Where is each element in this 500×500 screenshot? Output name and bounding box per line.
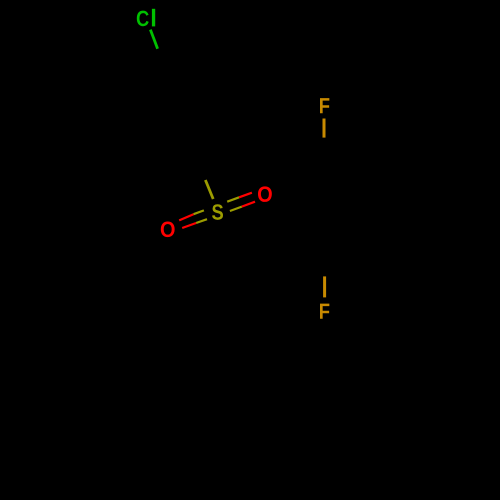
S=O double bond left, lower line, oxygen half <box>182 223 196 228</box>
atom S (sulfur label) <box>212 204 223 220</box>
wire bond F-C bottom (fluorine half-bond up) <box>323 276 326 297</box>
atom O left (oxygen label) <box>161 222 175 238</box>
S=O double bond right, lower line, oxygen half <box>242 202 255 207</box>
atom F bottom (fluorine label) <box>320 304 329 319</box>
wire bond S-C aryl (sulfur half-bond up to ring) <box>205 180 213 199</box>
atom O right (oxygen label) <box>258 186 272 202</box>
S=O double bond right, upper line, sulfur half <box>227 197 239 201</box>
S=O double bond right, lower line, sulfur half <box>230 207 242 211</box>
atom Cl (chlorine label) <box>137 11 149 27</box>
S=O double bond right, upper line, oxygen half <box>239 193 252 198</box>
wire bond Cl-C (chlorine half-bond) <box>150 30 157 49</box>
S=O double bond left, upper line, oxygen half <box>179 214 193 220</box>
S=O double bond left, lower line, sulfur half <box>196 219 207 223</box>
wire bond F-C top (fluorine half-bond down) <box>323 119 326 138</box>
atom F top (fluorine label) <box>320 98 329 113</box>
atom Cl (chlorine label, letter l bar) <box>152 9 155 27</box>
S=O double bond left, upper line, sulfur half <box>194 210 204 214</box>
